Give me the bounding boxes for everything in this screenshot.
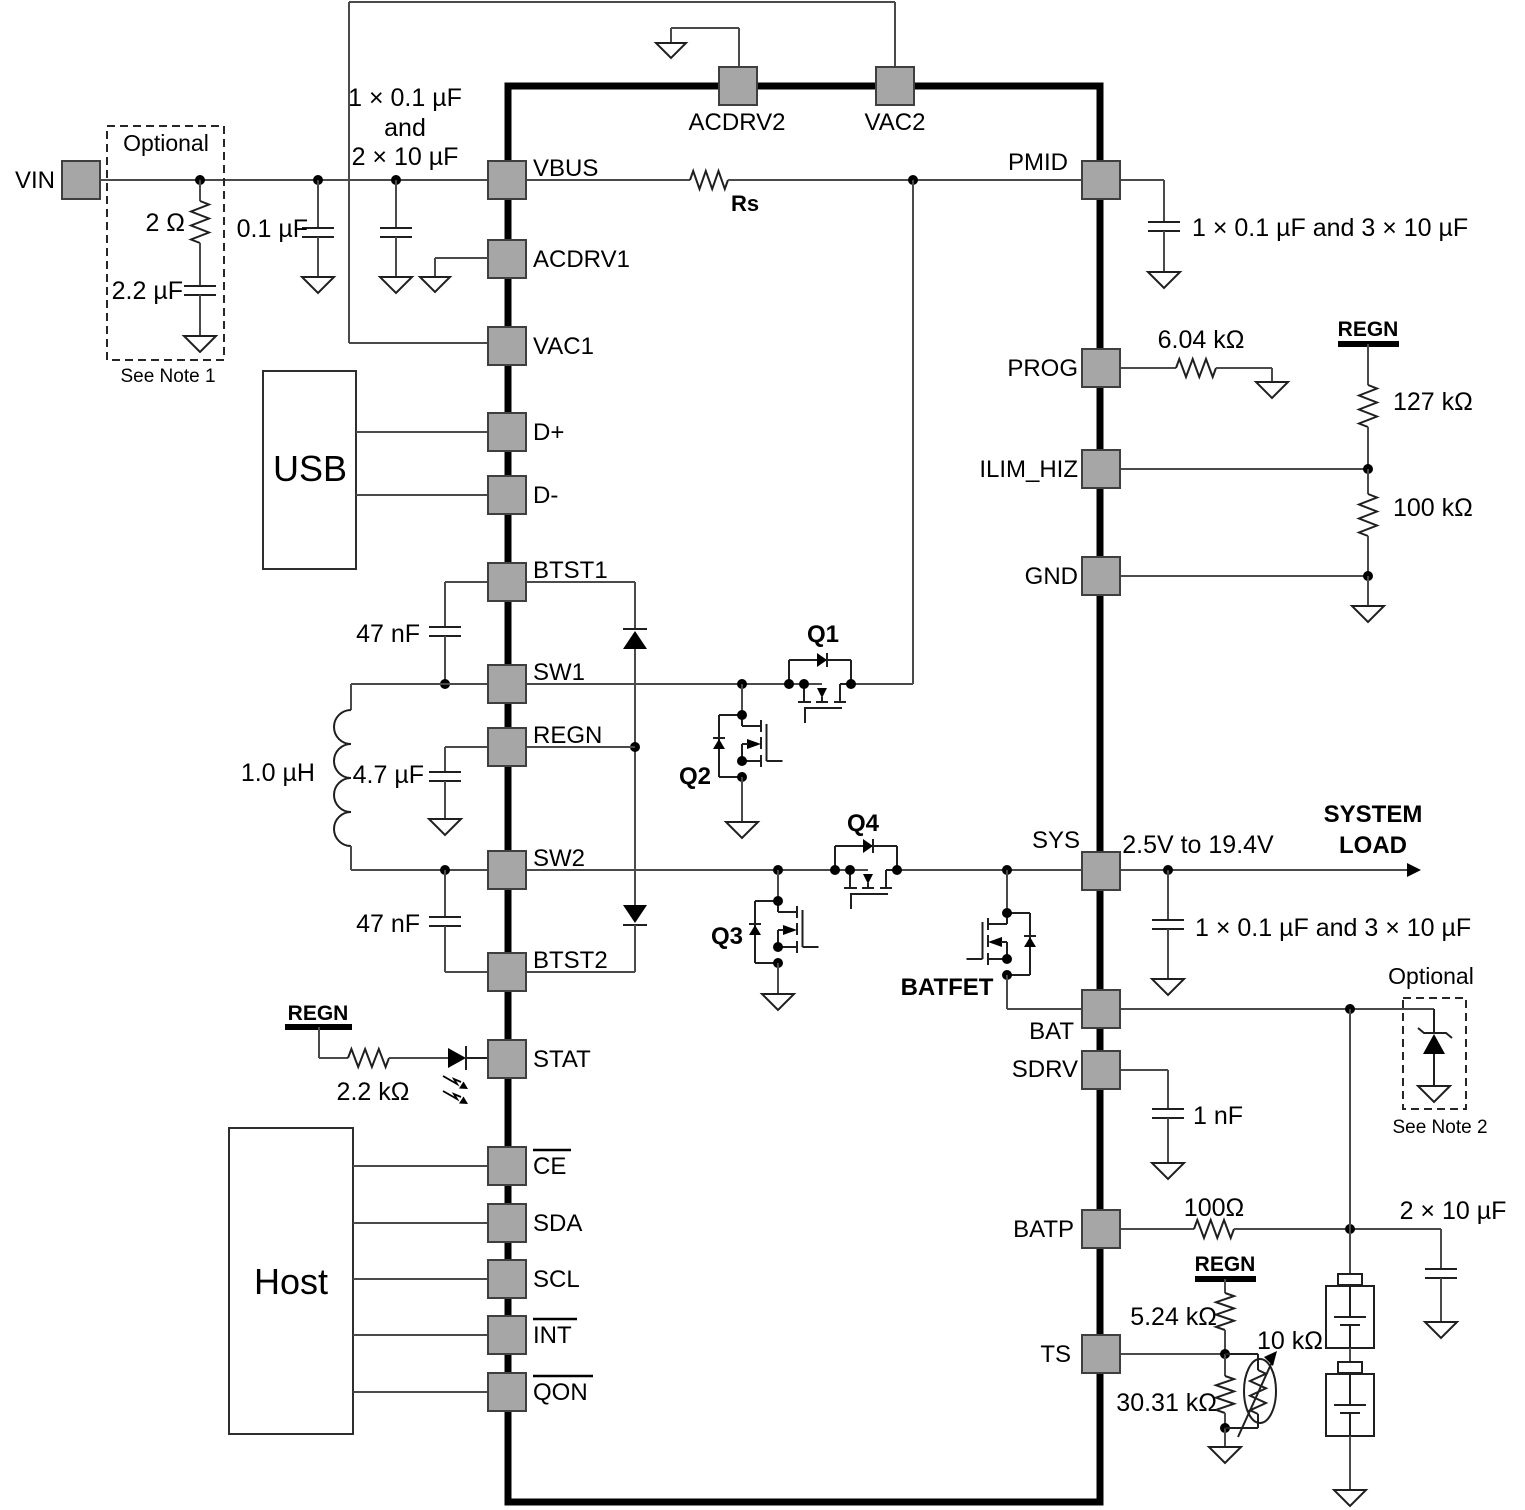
block USB xyxy=(263,371,356,569)
svg-text:2 × 10 µF: 2 × 10 µF xyxy=(1400,1197,1507,1225)
wire BTST1 to diode chain xyxy=(526,582,635,629)
ground for C_SYS xyxy=(1152,929,1184,995)
svg-text:VIN: VIN xyxy=(15,167,55,194)
svg-text:and: and xyxy=(384,114,426,142)
svg-text:BTST2: BTST2 xyxy=(533,947,608,974)
wire REGN to R_STAT xyxy=(319,1027,348,1058)
junction GND node xyxy=(1363,571,1373,581)
pin SYS xyxy=(1032,827,1120,890)
junction BATFET tap xyxy=(1002,865,1012,875)
resistor R_STAT 2.2k xyxy=(337,1049,410,1106)
svg-text:Optional: Optional xyxy=(123,130,209,156)
junction on VIN rail xyxy=(195,175,205,185)
ground for Q2 xyxy=(726,822,758,838)
svg-text:TS: TS xyxy=(1040,1341,1071,1368)
ground for R_PROG xyxy=(1256,382,1288,398)
capacitor C_BATP 2x10uF xyxy=(1400,1197,1507,1278)
wire Rs to PMID xyxy=(728,179,1082,181)
svg-text:2.2 µF: 2.2 µF xyxy=(112,277,183,305)
svg-text:Q2: Q2 xyxy=(679,763,711,790)
battery cell BT1 xyxy=(1326,1274,1374,1348)
wire USB to D+ xyxy=(356,431,489,433)
pin BATP xyxy=(1013,1210,1120,1248)
pin VBUS xyxy=(488,155,598,199)
capacitor C_SYS xyxy=(1152,870,1471,942)
svg-text:Rs: Rs xyxy=(731,191,759,216)
wire Host to QON xyxy=(353,1391,489,1393)
zener diode D_Z xyxy=(1418,1009,1452,1086)
svg-text:REGN: REGN xyxy=(1338,318,1399,341)
wire SW2 to Q3 xyxy=(777,870,779,901)
transistor BATFET xyxy=(901,908,1036,1001)
svg-text:1 × 0.1 µF: 1 × 0.1 µF xyxy=(348,84,462,112)
transistor Q3 xyxy=(711,896,819,968)
svg-text:10 kΩ: 10 kΩ xyxy=(1257,1327,1323,1355)
pin VAC1 xyxy=(488,327,594,365)
wire REGN pin to chain xyxy=(526,746,635,748)
svg-text:See Note 1: See Note 1 xyxy=(120,366,215,387)
junction ILIM node xyxy=(1363,464,1373,474)
svg-text:2 Ω: 2 Ω xyxy=(145,209,185,237)
capacitor C_BTST1 47nF xyxy=(356,620,461,648)
svg-text:30.31 kΩ: 30.31 kΩ xyxy=(1116,1389,1217,1417)
wire SW1 to inductor xyxy=(351,684,489,710)
svg-text:ACDRV1: ACDRV1 xyxy=(533,246,630,273)
arrow to system load xyxy=(1407,863,1421,877)
ground for zener xyxy=(1418,1086,1450,1102)
resistor Rs xyxy=(690,171,759,216)
svg-text:47 nF: 47 nF xyxy=(356,910,420,938)
svg-text:BAT: BAT xyxy=(1029,1018,1074,1045)
junction 10uF tap xyxy=(391,175,401,185)
ground for C_in2 xyxy=(380,237,412,293)
ground for C_PMID xyxy=(1148,231,1180,288)
pin VAC2 xyxy=(865,67,926,136)
resistor R_TS2 30.31k xyxy=(1116,1354,1234,1417)
svg-text:2.5V to 19.4V: 2.5V to 19.4V xyxy=(1122,831,1274,859)
ground for C_BATP xyxy=(1425,1278,1457,1338)
wire TS external xyxy=(1120,1353,1225,1355)
wire SW2 to C_BTST2 xyxy=(444,870,446,917)
svg-text:SCL: SCL xyxy=(533,1266,580,1293)
junction PMID node xyxy=(908,175,918,185)
optional zener dashed box xyxy=(1388,963,1474,1109)
label SYSTEM LOAD xyxy=(1324,801,1423,859)
svg-text:ACDRV2: ACDRV2 xyxy=(689,109,786,136)
junction SW2 tap xyxy=(440,865,450,875)
supply REGN rail TS xyxy=(1195,1253,1256,1279)
wire diode chain to BTST2 xyxy=(527,925,635,972)
svg-text:127 kΩ: 127 kΩ xyxy=(1393,388,1473,416)
wire ILIM_HIZ external xyxy=(1120,468,1368,470)
junction SW1 tap xyxy=(440,679,450,689)
wire SW1 to Q2 xyxy=(741,684,743,715)
svg-text:2 × 10 µF: 2 × 10 µF xyxy=(352,143,459,171)
svg-text:5.24 kΩ: 5.24 kΩ xyxy=(1130,1303,1217,1331)
ground for C_SDRV xyxy=(1152,1118,1184,1179)
diode D_BTST1 xyxy=(623,629,647,649)
capacitor C_damp 2.2 uF xyxy=(112,243,216,305)
wire Host to INT xyxy=(353,1334,489,1336)
pin ILIM_HIZ xyxy=(979,450,1120,488)
svg-text:47 nF: 47 nF xyxy=(356,620,420,648)
svg-text:SDA: SDA xyxy=(533,1210,582,1237)
svg-text:PROG: PROG xyxy=(1007,355,1078,382)
pin D- xyxy=(488,476,558,514)
capacitor C_PMID xyxy=(1148,214,1468,242)
battery cell BT2 xyxy=(1326,1362,1374,1436)
pin PROG xyxy=(1007,349,1120,387)
svg-text:See Note 2: See Note 2 xyxy=(1392,1117,1487,1138)
thermistor RT 10k xyxy=(1225,1327,1323,1437)
pin SDA xyxy=(488,1204,582,1242)
wire USB to D- xyxy=(356,494,489,496)
svg-text:CE: CE xyxy=(533,1153,566,1180)
ground for Q3 xyxy=(762,994,794,1010)
svg-text:SYSTEM: SYSTEM xyxy=(1324,801,1423,828)
junction BATP battery tap xyxy=(1345,1224,1355,1234)
svg-text:100 kΩ: 100 kΩ xyxy=(1393,494,1473,522)
pin ACDRV1 xyxy=(488,240,630,278)
junction battery tap xyxy=(1345,1004,1355,1014)
resistor R1 127k xyxy=(1359,385,1473,427)
wire R100k to GND node xyxy=(1367,536,1369,576)
pin BTST1 xyxy=(488,557,608,601)
wire GND pin external xyxy=(1120,575,1368,577)
capacitor C_in1 0.1uF xyxy=(237,180,334,243)
wire PMID node to Q1 drain xyxy=(851,180,913,684)
svg-text:D-: D- xyxy=(533,482,558,509)
svg-text:D+: D+ xyxy=(533,419,564,446)
svg-text:STAT: STAT xyxy=(533,1046,591,1073)
wire Host to CE xyxy=(353,1165,489,1167)
junction SYS cap tap xyxy=(1163,865,1173,875)
svg-text:USB: USB xyxy=(273,448,347,489)
ground for ACDRV1 xyxy=(420,277,450,292)
junction REGN on chain xyxy=(630,742,640,752)
junction 0.1uF tap xyxy=(313,175,323,185)
LED D_STAT xyxy=(448,1046,489,1070)
svg-text:BTST1: BTST1 xyxy=(533,557,608,584)
wire between cells xyxy=(1349,1348,1351,1362)
svg-text:SW2: SW2 xyxy=(533,845,585,872)
pin REGN xyxy=(488,722,602,766)
wire C_BTST2 to BTST2 xyxy=(445,926,489,972)
junction Q3 tap xyxy=(773,865,783,875)
IC body outline xyxy=(508,86,1100,1502)
ground for C_REGN xyxy=(429,781,461,835)
resistor R_BATP 100 xyxy=(1184,1194,1244,1238)
ground for ACDRV2 xyxy=(656,43,686,58)
ground for battery xyxy=(1334,1490,1366,1506)
svg-text:BATP: BATP xyxy=(1013,1216,1074,1243)
pin GND xyxy=(1025,557,1120,595)
wire PMID external xyxy=(1120,180,1164,222)
wire SW2 rail right of Q4 xyxy=(886,869,1082,871)
wire VBUS to Rs xyxy=(526,179,690,181)
transistor Q4 xyxy=(830,810,902,909)
wire Host to SCL xyxy=(353,1278,489,1280)
pin SDRV xyxy=(1012,1051,1120,1089)
wire REGN to C_REGN xyxy=(445,747,489,772)
resistor R2 100k xyxy=(1359,469,1473,536)
svg-text:1.0 µH: 1.0 µH xyxy=(241,759,315,787)
svg-text:100Ω: 100Ω xyxy=(1184,1194,1244,1222)
resistor R_damp 2 Ohm xyxy=(145,180,209,243)
junction Q2 tap xyxy=(737,679,747,689)
diode D_BTST2 xyxy=(623,905,647,925)
wire R_BATP to cap xyxy=(1234,1228,1441,1230)
svg-text:ILIM_HIZ: ILIM_HIZ xyxy=(979,456,1078,483)
svg-text:4.7 µF: 4.7 µF xyxy=(353,761,424,789)
wire R_TS1 to TS xyxy=(1224,1330,1226,1354)
wire REGN to R127k xyxy=(1367,344,1369,385)
wire SW1 internal rail xyxy=(526,683,822,685)
svg-text:SYS: SYS xyxy=(1032,827,1080,854)
supply REGN rail right xyxy=(1338,318,1399,344)
inductor L1 1.0uH xyxy=(241,710,351,846)
svg-text:Host: Host xyxy=(254,1261,328,1302)
transistor Q2 xyxy=(679,710,783,790)
svg-text:QON: QON xyxy=(533,1379,588,1406)
svg-text:0.1 µF: 0.1 µF xyxy=(237,215,308,243)
pin SW2 xyxy=(488,845,585,889)
ground for TS network xyxy=(1209,1428,1241,1463)
svg-text:REGN: REGN xyxy=(288,1002,349,1025)
supply REGN rail STAT xyxy=(285,1002,352,1027)
block Host xyxy=(229,1128,353,1434)
pin SCL xyxy=(488,1260,580,1298)
svg-text:1 nF: 1 nF xyxy=(1193,1102,1243,1130)
capacitor C_REGN 4.7uF xyxy=(353,761,461,789)
node VIN terminal xyxy=(15,161,100,199)
capacitor C_SDRV 1nF xyxy=(1152,1102,1243,1130)
svg-text:SW1: SW1 xyxy=(533,659,585,686)
note 1 text xyxy=(120,366,215,387)
resistor R_TS1 5.24k xyxy=(1130,1279,1234,1331)
wire R_STAT to LED xyxy=(389,1057,448,1059)
svg-text:Q4: Q4 xyxy=(847,810,880,837)
wire ACDRV1 to ground xyxy=(435,258,489,277)
pin BAT xyxy=(1029,990,1120,1045)
svg-text:GND: GND xyxy=(1025,563,1078,590)
svg-text:PMID: PMID xyxy=(1008,149,1068,176)
pin STAT xyxy=(488,1040,591,1078)
wire Q3 source to ground xyxy=(777,963,779,994)
wire R_PROG to ground xyxy=(1216,368,1272,382)
transistor Q1 xyxy=(784,621,856,723)
svg-text:1 × 0.1 µF and 3 × 10 µF: 1 × 0.1 µF and 3 × 10 µF xyxy=(1195,914,1471,942)
pin QON xyxy=(488,1373,593,1411)
note 2 text xyxy=(1392,1117,1487,1138)
label SYS voltage xyxy=(1122,831,1274,859)
optional input filter dashed box xyxy=(107,126,224,360)
wire SW2 internal rail xyxy=(527,869,868,871)
pin BTST2 xyxy=(488,947,608,991)
svg-text:VAC1: VAC1 xyxy=(533,333,594,360)
ground for damping branch xyxy=(184,295,216,352)
svg-text:LOAD: LOAD xyxy=(1339,832,1407,859)
wire Q2 source to ground xyxy=(741,777,743,822)
wire Host to SDA xyxy=(353,1222,489,1224)
wire BAT to battery xyxy=(1349,1009,1351,1274)
wire C_BTST1 to SW1 xyxy=(444,636,446,684)
junction TS node xyxy=(1220,1349,1230,1359)
ground for divider xyxy=(1352,576,1384,622)
svg-text:REGN: REGN xyxy=(1195,1253,1256,1276)
pin TS xyxy=(1040,1335,1120,1373)
wire VIN to VBUS rail xyxy=(100,179,489,181)
wire VAC1 to VAC2 loop xyxy=(349,2,895,343)
input cap value label xyxy=(348,84,462,171)
pin CE xyxy=(488,1147,571,1185)
wire BTST1 to C_BTST1 xyxy=(445,582,489,627)
wire BATFET to BAT wire xyxy=(1007,975,1082,1009)
wire battery to ground xyxy=(1349,1436,1351,1490)
wire PROG external xyxy=(1120,367,1176,369)
wire SYS to BATFET xyxy=(1006,870,1008,913)
svg-text:BATFET: BATFET xyxy=(901,974,994,1001)
svg-text:6.04 kΩ: 6.04 kΩ xyxy=(1158,326,1245,354)
capacitor C_in2 10uF xyxy=(380,180,412,237)
svg-text:Q3: Q3 xyxy=(711,923,743,950)
wire inductor to SW2 xyxy=(351,846,489,870)
pin D+ xyxy=(488,413,564,451)
wire SYS external xyxy=(1120,869,1412,871)
LED emission arrows xyxy=(443,1076,468,1104)
svg-text:Optional: Optional xyxy=(1388,963,1474,989)
pin SW1 xyxy=(488,659,585,703)
resistor R_PROG 6.04k xyxy=(1158,326,1245,377)
pin ACDRV2 xyxy=(689,67,786,136)
svg-text:SDRV: SDRV xyxy=(1012,1056,1078,1083)
wire BATP external xyxy=(1120,1228,1194,1230)
capacitor C_BTST2 47nF xyxy=(356,910,461,938)
svg-text:VAC2: VAC2 xyxy=(865,109,926,136)
svg-text:Q1: Q1 xyxy=(807,621,839,648)
wire BAT external xyxy=(1120,1008,1434,1010)
ground for C_in1 xyxy=(302,237,334,293)
wire SDRV external xyxy=(1120,1070,1168,1109)
svg-text:INT: INT xyxy=(533,1322,572,1349)
svg-text:2.2 kΩ: 2.2 kΩ xyxy=(337,1078,410,1106)
svg-text:1 × 0.1 µF and 3 × 10 µF: 1 × 0.1 µF and 3 × 10 µF xyxy=(1192,214,1468,242)
junction TS bottom node xyxy=(1220,1413,1230,1433)
wire ACDRV2 to ground xyxy=(671,28,739,67)
svg-text:REGN: REGN xyxy=(533,722,602,749)
svg-text:VBUS: VBUS xyxy=(533,155,598,182)
wire diode chain middle xyxy=(634,649,636,905)
pin PMID xyxy=(1008,149,1120,199)
pin INT xyxy=(488,1316,577,1354)
wire R127k to ILIM node xyxy=(1367,427,1369,469)
